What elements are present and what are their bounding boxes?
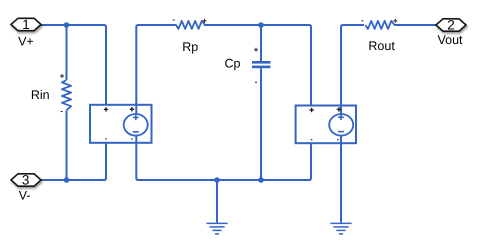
svg-text:Rp: Rp xyxy=(182,40,198,54)
svg-text:V+: V+ xyxy=(18,35,34,49)
svg-text:Rin: Rin xyxy=(31,88,50,102)
svg-text:1: 1 xyxy=(22,17,30,32)
svg-text:V-: V- xyxy=(19,189,31,203)
svg-text:Rout: Rout xyxy=(368,39,395,53)
svg-text:Vout: Vout xyxy=(437,33,463,47)
svg-text:2: 2 xyxy=(447,18,455,33)
svg-text:Cp: Cp xyxy=(225,57,241,71)
svg-text:3: 3 xyxy=(22,173,30,188)
